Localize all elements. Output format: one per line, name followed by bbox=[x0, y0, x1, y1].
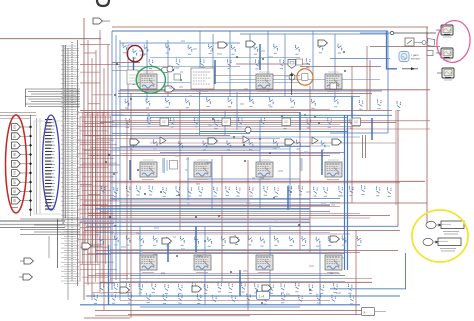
switch row y236 bbox=[99, 235, 361, 246]
scope block 1 bbox=[436, 25, 453, 37]
annotation yellow ellipse bbox=[412, 210, 468, 262]
wire gray stubs left bbox=[0, 113, 36, 119]
subsystem block r3c1 bbox=[140, 253, 157, 273]
scope block 3 bbox=[437, 68, 454, 80]
sum junction 85,247 bbox=[82, 244, 88, 250]
switch row y283 bbox=[100, 282, 353, 293]
teal bars and white box bbox=[148, 113, 303, 173]
mux 120,287 bbox=[120, 287, 129, 293]
subsystem block r2c4 bbox=[325, 160, 342, 180]
wire junction column with diamonds bbox=[29, 115, 32, 216]
mux 162,238 bbox=[162, 238, 171, 244]
white box x160 bbox=[160, 118, 169, 126]
white box x222 bbox=[222, 118, 231, 126]
annotation pink ellipse bbox=[434, 18, 473, 64]
source block light blue bbox=[399, 52, 420, 62]
mux 285,139 bbox=[285, 139, 294, 145]
white box x282 bbox=[282, 118, 291, 126]
gain 312,137 bbox=[312, 137, 318, 144]
unit delay block bbox=[405, 38, 414, 46]
small block in orange circle bbox=[302, 74, 309, 81]
subsystem block r3c4 bbox=[325, 253, 342, 273]
mux 330,236 bbox=[330, 236, 339, 242]
vector block bottom bbox=[257, 292, 301, 300]
switch row y59 bbox=[149, 58, 311, 69]
sum junction 170,69 bbox=[167, 66, 173, 72]
mux 218,42 bbox=[218, 42, 227, 48]
port lower left 2 bbox=[19, 274, 32, 280]
subsystem block r2c1 bbox=[140, 160, 157, 180]
input port column In1-In9 bbox=[12, 124, 31, 208]
rotated box right bbox=[427, 39, 435, 47]
flag block bbox=[288, 60, 296, 69]
switch row y118 bbox=[125, 117, 354, 128]
port top left bbox=[93, 18, 110, 24]
oval element bbox=[161, 67, 174, 73]
arrow mid right bbox=[402, 67, 418, 70]
mux 230,237 bbox=[230, 237, 239, 243]
mux 192,286 bbox=[192, 286, 201, 292]
subsystem block r3c3 bbox=[256, 253, 273, 273]
wire blue horizontal bus lines bbox=[80, 31, 406, 307]
cropped caption letter bbox=[97, 0, 109, 6]
white box x352 bbox=[352, 118, 361, 126]
wire black bundle lower left bbox=[20, 219, 80, 268]
wire blue feeder top right bbox=[387, 32, 398, 69]
switch in red circle bbox=[132, 49, 137, 59]
svg-text:sensor: sensor bbox=[411, 57, 420, 61]
wire black bundle upper left bbox=[25, 89, 80, 107]
wire left vertical bus strip bbox=[61, 40, 79, 300]
scope block 2 bbox=[436, 48, 453, 60]
gain 243,136 bbox=[243, 136, 249, 143]
wire blue mesh mid bbox=[96, 58, 380, 282]
annotation orange circle bbox=[295, 67, 314, 87]
sum junction 248,130 bbox=[245, 127, 251, 133]
arrow up bbox=[290, 72, 293, 95]
wire red mesh left bbox=[78, 45, 132, 293]
small box right bbox=[427, 51, 433, 56]
junction right bbox=[414, 41, 426, 45]
subsystem block r1c4 bbox=[325, 72, 342, 92]
port mid left bbox=[82, 243, 100, 249]
subsystem block r1c1 bbox=[140, 72, 157, 92]
annotation red circle bbox=[127, 45, 143, 61]
wire gray bus band bbox=[0, 220, 310, 228]
wire red bottom line bbox=[95, 315, 250, 317]
annotation blue left ellipse bbox=[43, 115, 60, 210]
subsystem block r3c2 bbox=[194, 253, 211, 273]
gain 160,137 bbox=[160, 137, 166, 144]
mux 165,86 bbox=[165, 86, 174, 92]
sum junction 292,77 bbox=[289, 74, 295, 80]
small element 330,83 bbox=[330, 83, 337, 89]
small element 296,59 bbox=[296, 59, 303, 65]
subsystem block r2c3 bbox=[256, 160, 273, 180]
switch row y186 bbox=[101, 185, 392, 197]
mux 246,41 bbox=[246, 41, 255, 47]
switch row y44 bbox=[122, 43, 342, 54]
wire thick blue stubs bbox=[130, 44, 372, 296]
mux 318,40 bbox=[318, 40, 327, 46]
wire blue vertical lines bbox=[109, 31, 406, 305]
svg-text:1-4: 1-4 bbox=[259, 294, 266, 299]
mux 208,138 bbox=[208, 138, 217, 144]
switch row y140 bbox=[130, 139, 326, 150]
switch row y294 bbox=[93, 293, 354, 305]
switch row y98 bbox=[125, 97, 339, 108]
oscillator blocks in yellow ellipse bbox=[423, 221, 464, 251]
node and wire top right bbox=[360, 31, 436, 39]
wire red vertical bus lines bbox=[84, 18, 427, 318]
mux 332,139 bbox=[332, 139, 341, 145]
annotation red left ellipse bbox=[6, 115, 27, 213]
annotation green ellipse bbox=[136, 66, 165, 93]
mux 262,285 bbox=[262, 285, 271, 291]
mux 130,139 bbox=[130, 139, 139, 145]
subsystem block r2c2 bbox=[194, 160, 211, 180]
white box left of green bbox=[127, 70, 138, 84]
subsystem block r1c3 bbox=[256, 72, 273, 92]
wire red mesh mid bbox=[84, 71, 430, 301]
switch row y100 bbox=[359, 99, 401, 110]
subsystem block r1c2 bbox=[191, 68, 214, 92]
port lower left 1 bbox=[20, 258, 33, 264]
gain block bottom right bbox=[362, 308, 387, 316]
bus selector column bbox=[34, 118, 65, 214]
small element 174,74 bbox=[174, 74, 181, 80]
wire blue corner and gray pair right bbox=[330, 133, 388, 158]
tiny label marks bbox=[121, 41, 344, 294]
